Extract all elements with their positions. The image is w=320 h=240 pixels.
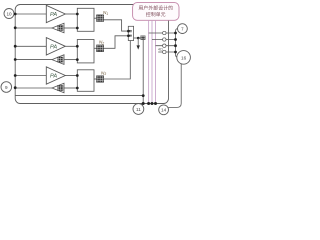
switch row 3: [156, 44, 176, 47]
control wire 3: [155, 20, 157, 103]
op-amp PA1: [46, 5, 65, 22]
node ch3 block in: [76, 74, 79, 77]
node ch1 input on border: [14, 13, 17, 16]
svg-text:14: 14: [161, 108, 167, 113]
wire ch1 feedback left: [15, 27, 52, 29]
wiper arrow: [137, 38, 140, 50]
node ch1 feedback block: [76, 27, 79, 30]
node pin11 net on border: [142, 102, 145, 105]
node ch2 input on border: [14, 45, 17, 48]
node ch2 feedback on border: [14, 58, 17, 61]
svg-text:控制单元: 控制单元: [146, 11, 166, 18]
wire PA3 output: [65, 75, 77, 77]
node selector input 2: [127, 35, 130, 38]
svg-text:N1: N1: [103, 10, 108, 16]
node row 4 bus: [174, 51, 177, 54]
output block ch3: [77, 70, 94, 92]
node ch3 input on border: [14, 74, 17, 77]
wire ch1 input: [15, 13, 46, 15]
output block ch2: [77, 40, 94, 63]
wire selector output: [134, 37, 144, 39]
pin 9 circle (lower-left pin): [1, 82, 12, 93]
wire N3 to selector: [104, 41, 131, 80]
pin 10 circle (top-left input pin): [4, 9, 14, 19]
node ch1 block in: [76, 13, 79, 16]
svg-text:9: 9: [5, 85, 8, 90]
feedback attenuator ch1: [52, 23, 64, 33]
wire block3 to N3: [94, 78, 97, 80]
node ch2 feedback block: [76, 58, 79, 61]
wire pin16 to pin14: [168, 64, 181, 108]
wire ch3 input: [15, 75, 46, 77]
svg-text:PA: PA: [50, 44, 57, 50]
wire return bus: [15, 95, 143, 97]
wire ch2 feedback right: [64, 59, 77, 61]
wire PA1 output: [65, 13, 77, 15]
node control wire 2 bottom: [151, 102, 154, 105]
node selector input 1: [127, 30, 130, 33]
wire ch3 feedback right: [64, 87, 77, 89]
node ch2 block in: [76, 45, 79, 48]
op-amp PA3: [46, 67, 65, 84]
control wire 2: [151, 20, 153, 103]
switch row 2: [152, 38, 176, 41]
transformer N2: [97, 40, 105, 52]
node control wire 3 bottom: [154, 102, 157, 105]
selector switch box: [128, 26, 133, 40]
feedback attenuator ch2: [52, 55, 64, 65]
wire block1 to N1: [94, 17, 97, 19]
pin 11 circle (bottom): [133, 104, 144, 115]
feedback attenuator ch3: [52, 83, 64, 93]
svg-text:16: 16: [181, 55, 187, 60]
wire ch3 feedback left: [15, 87, 52, 89]
IC body outline: [15, 5, 168, 104]
svg-text:N3: N3: [101, 70, 106, 76]
node row 3 bus: [174, 44, 177, 47]
pin 7 circle (top-right): [178, 24, 188, 34]
node row 1 bus: [174, 32, 177, 35]
pin 16 circle (right): [177, 51, 191, 65]
output block ch1: [77, 8, 94, 31]
switch row 1: [149, 31, 176, 34]
wire ch1 feedback right: [64, 27, 77, 29]
svg-text:用户外部设计的: 用户外部设计的: [138, 5, 173, 12]
svg-text:PA: PA: [50, 12, 57, 18]
node ch3 feedback on border: [14, 86, 17, 89]
control wire 1: [148, 20, 150, 103]
switch row 4: [158, 48, 176, 54]
node ch1 feedback on border: [14, 26, 17, 29]
svg-text:N2: N2: [99, 40, 104, 46]
wire N2 to selector: [104, 36, 129, 49]
svg-text:10: 10: [6, 11, 12, 16]
pin 14 circle (bottom-right): [159, 105, 169, 115]
wire ch2 input: [15, 45, 46, 47]
node control wire 1 bottom: [147, 102, 150, 105]
wire N1 to selector: [104, 20, 129, 31]
external jumper bus: [176, 29, 178, 58]
node row 2 bus: [174, 38, 177, 41]
wire ch2 feedback left: [15, 59, 52, 61]
wire selected signal drop: [142, 38, 144, 104]
wire PA2 output: [65, 45, 77, 47]
wire block2 to N2: [94, 47, 97, 49]
transformer N3: [97, 70, 107, 82]
node return junction: [142, 94, 145, 97]
svg-text:4Ω: 4Ω: [158, 48, 163, 52]
node ch3 feedback block: [76, 87, 79, 90]
transformer N1: [97, 10, 109, 22]
op-amp PA2: [46, 38, 65, 55]
attenuator tap box: [141, 36, 146, 40]
svg-text:PA: PA: [50, 74, 57, 80]
node wiper tap: [137, 37, 140, 40]
control unit box: [133, 3, 179, 21]
svg-text:11: 11: [136, 107, 141, 112]
